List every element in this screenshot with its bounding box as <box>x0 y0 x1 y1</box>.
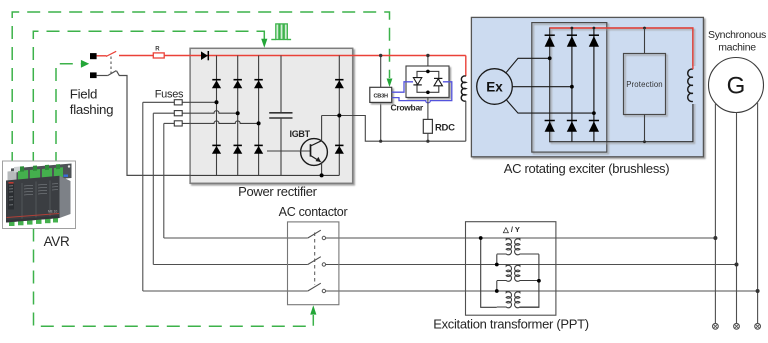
field flashing linkage dashed <box>110 57 112 74</box>
svg-text:Ex: Ex <box>486 80 503 95</box>
exciter diode bottom leg3 <box>589 121 599 132</box>
diode top leg3 <box>254 80 263 89</box>
svg-text:Excitation transformer (PPT): Excitation transformer (PPT) <box>433 316 589 331</box>
ground terminal 3 <box>755 323 761 329</box>
field flashing switch blade (red) <box>106 51 116 56</box>
AVR device front face <box>6 176 60 223</box>
arrow into field flashing contactor <box>81 60 89 68</box>
wire row2 vertical from fuse2 <box>152 113 154 264</box>
fuse F3 <box>174 121 182 126</box>
crowbar thyristor pair box <box>427 56 429 67</box>
node phase b <box>570 85 574 89</box>
exciter diode top leg1 <box>545 35 555 47</box>
wire Ex phase b to leg2 <box>512 86 572 88</box>
exciter diode bottom leg1 <box>545 121 555 132</box>
node right leg / DC output <box>337 114 341 118</box>
excitation transformer box <box>466 222 556 316</box>
contactor linkage dashed <box>314 233 316 286</box>
node phase a <box>548 56 552 60</box>
exciter bridge leg 3 <box>593 28 595 142</box>
AVR photo frame <box>3 161 76 229</box>
wire Ex phase c to leg3 <box>506 100 594 113</box>
diode bottom leg3 <box>254 145 263 153</box>
fuse feeder wire 3 <box>164 122 175 124</box>
delta link T2 bottom to wire3 <box>496 281 498 291</box>
svg-text:△ / Y: △ / Y <box>502 225 520 234</box>
blue gate wire to right thyristor <box>392 82 452 103</box>
node thyristor on red bus <box>426 54 429 57</box>
rectifier leg 3 <box>258 56 260 176</box>
ground terminal 2 <box>734 323 740 329</box>
node protection/red rail <box>643 27 646 30</box>
wire exciter field to crowbar rail <box>465 101 467 141</box>
delta return bus T3 bottom to wire1 <box>481 238 497 307</box>
gate arrow into power rectifier <box>261 39 267 48</box>
AVR bottom teeth <box>9 218 58 226</box>
svg-text:Power rectifier: Power rectifier <box>238 184 318 199</box>
protection box <box>624 54 666 115</box>
exciter machine circle Ex <box>477 69 513 105</box>
wire green dashed control line 1 (AVR to crowbar gate) <box>12 12 389 165</box>
svg-text:G: G <box>727 73 746 100</box>
node delta/wire2 <box>495 263 499 267</box>
diode top leg1 <box>212 80 221 89</box>
rectifier leg 2 <box>237 56 239 176</box>
node exciter rail leg3 top <box>593 27 596 30</box>
thyristor T1 (left, pointing down) <box>413 78 421 85</box>
svg-text:ME 10: ME 10 <box>48 210 57 214</box>
wire row2 <box>153 264 307 266</box>
exciter output loop rectangle <box>550 28 693 142</box>
AC rotating exciter box <box>471 17 703 156</box>
field flashing contact top <box>90 53 97 59</box>
contactor switch pole 3 <box>308 283 326 292</box>
node delta/wire3 <box>495 289 499 293</box>
blue gate wire to left thyristor <box>392 82 413 92</box>
wire fuse3 hops over leg1 and leg2 then to leg3 <box>212 121 259 124</box>
node leg3/feeder3 <box>257 121 261 125</box>
crowbar trigger unit CB3H <box>380 56 382 88</box>
svg-text:Protection: Protection <box>626 80 663 89</box>
AVR device back mounting plate <box>11 164 72 184</box>
exciter diode top leg3 <box>589 35 599 47</box>
generator phase line 1 <box>714 104 716 324</box>
svg-text:flashing: flashing <box>70 102 113 117</box>
node wye neutral <box>537 279 541 283</box>
fuse feeder wire 1 <box>143 101 175 103</box>
transistor IGBT Q1 <box>267 116 327 176</box>
protection bottom lead <box>644 115 646 142</box>
wire fuse2 hop over leg1 then to leg2 <box>212 111 238 114</box>
node leg2/feeder2 <box>236 111 240 115</box>
discharge resistor RDC <box>427 97 429 119</box>
node row1/phase1 <box>713 236 717 240</box>
transformer T3 primary winding <box>497 291 512 308</box>
wire red DC+ from field flashing through rectifier to exciter field <box>97 55 107 57</box>
exciter diode top leg2 <box>567 35 577 47</box>
generator phase line 2 <box>736 113 738 324</box>
wire row1 <box>164 237 308 239</box>
node delta/wire1 <box>479 236 483 240</box>
fuse F1 <box>174 100 182 105</box>
transformer T2 secondary winding <box>515 265 539 282</box>
fuse F2 <box>174 111 182 116</box>
node thyristor top <box>426 70 430 74</box>
node CB3H/rail <box>379 140 382 143</box>
transformer T2 primary winding <box>497 265 512 282</box>
diode bottom leg2 <box>233 145 242 153</box>
delta link T1 bottom to wire2 <box>496 254 498 264</box>
node row2/phase2 <box>735 263 739 267</box>
wire green dashed control line 2 (AVR to IGBT gate) <box>33 31 257 165</box>
gate arrow into crowbar CB3H <box>387 79 393 88</box>
contactor switch pole 2 <box>308 257 326 266</box>
transformer T1 primary winding <box>497 238 512 255</box>
wire green dashed control line 4 (AVR to AC contactor) <box>34 229 314 327</box>
diode bottom leg1 <box>212 145 221 153</box>
wire rectifier DC output to crowbar rail <box>322 116 466 142</box>
transformer T1 secondary winding <box>515 238 539 255</box>
AVR terminal blocks row <box>8 171 17 181</box>
thyristor T2 (right, pointing up) <box>434 78 442 85</box>
svg-text:IGBT: IGBT <box>290 129 311 139</box>
diode bottom right leg <box>335 145 344 153</box>
resistor R (field flashing) <box>153 53 164 58</box>
wire green dashed control line 3 (AVR to field flashing) <box>56 64 82 165</box>
rectifier right leg <box>338 56 340 176</box>
field flashing contact bottom <box>90 72 97 78</box>
svg-text:Fuses: Fuses <box>155 89 184 101</box>
series diode D0 on red line <box>201 51 208 60</box>
wire row3 <box>143 290 308 292</box>
svg-text:AVR: AVR <box>44 234 70 249</box>
rotating diode bridge box <box>532 23 607 153</box>
node phase c <box>592 111 596 115</box>
protection top lead <box>644 28 646 54</box>
rectifier leg 1 <box>216 56 218 176</box>
wire row1 vertical from fuse3 <box>163 123 165 238</box>
exciter bridge leg 2 <box>571 28 573 142</box>
diode top leg2 <box>233 80 242 89</box>
AVR device right side panel <box>60 176 71 218</box>
node thyristor bottom <box>426 91 430 95</box>
ground terminal 1 <box>713 323 719 329</box>
svg-text:CB3H: CB3H <box>373 93 388 99</box>
node RDC/rail <box>426 140 429 143</box>
node CB3H on red bus <box>379 54 382 57</box>
wire row3 vertical from fuse1 <box>142 102 144 291</box>
svg-text:AC contactor: AC contactor <box>279 205 348 219</box>
svg-text:Synchronous: Synchronous <box>708 29 766 41</box>
contactor switch pole 1 <box>308 230 326 240</box>
node exciter rail leg2 top <box>571 27 574 30</box>
diode top right leg <box>335 80 344 89</box>
transformer T3 secondary winding <box>515 291 539 308</box>
svg-text:Crowbar: Crowbar <box>391 102 424 112</box>
wire from bottom contact to rectifier DC- rail <box>97 75 108 77</box>
node leg1/feeder1 <box>215 100 219 104</box>
generator field winding (right coil) <box>688 66 698 104</box>
node protection/bottom rail <box>643 140 646 143</box>
arrow into AC contactor bottom <box>310 305 316 314</box>
AVR face details <box>8 184 14 210</box>
svg-text:AC rotating exciter (brushless: AC rotating exciter (brushless) <box>504 161 670 176</box>
svg-text:machine: machine <box>718 42 756 54</box>
capacitor C1 <box>269 56 292 176</box>
generator circle G <box>709 58 764 113</box>
power rectifier box <box>190 48 353 183</box>
svg-text:Field: Field <box>70 86 97 101</box>
rectifier DC- bottom rail <box>190 174 339 176</box>
wire Ex phase a to leg1 <box>506 58 550 73</box>
fuse feeder wire 2 <box>153 112 174 114</box>
node IGBT emitter / DC- rail <box>320 173 324 177</box>
red wire over exciter top rail to generator field <box>550 28 693 69</box>
node row3/phase3 <box>756 289 760 293</box>
wye neutral bus <box>520 254 539 307</box>
AC contactor box <box>288 222 339 305</box>
svg-text:R: R <box>155 47 160 53</box>
svg-text:RDC: RDC <box>435 123 455 134</box>
exciter field winding (red fed) <box>461 76 466 101</box>
generator phase line 3 <box>757 103 759 324</box>
gate pulse signal glyph <box>271 39 275 41</box>
exciter diode bottom leg2 <box>567 121 577 132</box>
